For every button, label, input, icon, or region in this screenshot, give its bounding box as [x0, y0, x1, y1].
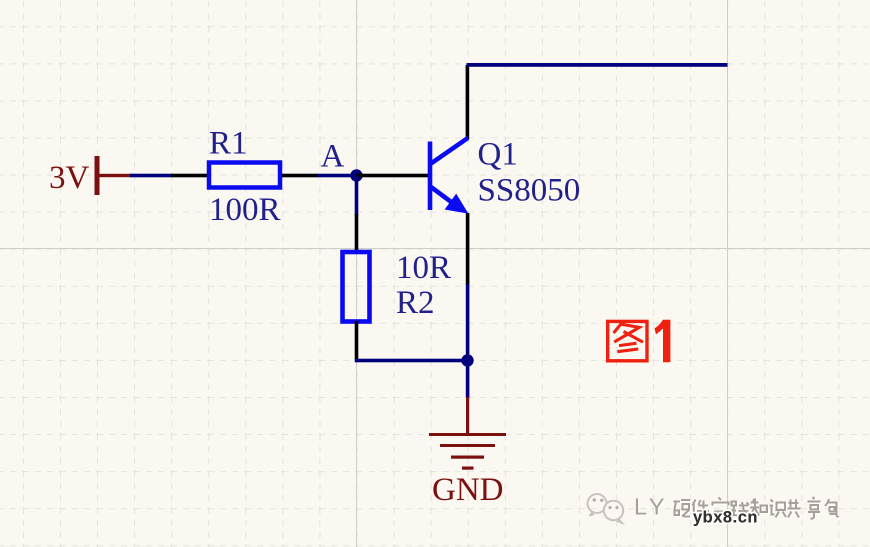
resistor R2: [343, 252, 370, 322]
wire navy bottom horizontal: [355, 359, 468, 363]
svg-text:A: A: [321, 139, 345, 175]
svg-text:R1: R1: [209, 126, 248, 162]
svg-text:LY: LY: [634, 494, 668, 520]
node emitter-ground junction: [461, 354, 473, 366]
power port 3V bar: [95, 156, 100, 195]
wire navy top rail: [467, 63, 728, 67]
transistor Q1 emitter arrow: [445, 194, 469, 214]
caption figure-1 digit: [655, 320, 671, 363]
wire navy junction to ground: [466, 360, 470, 398]
svg-text:R2: R2: [396, 285, 435, 321]
svg-text:ybx8.cn: ybx8.cn: [693, 509, 758, 527]
wire navy to junction: [466, 284, 470, 360]
watermark wechat icon: [588, 494, 624, 523]
resistor R1: [209, 163, 280, 188]
svg-text:Q1: Q1: [478, 137, 518, 173]
wire navy into node A: [317, 174, 357, 178]
wire red ground stub: [466, 397, 469, 434]
wire 3V red stub: [97, 174, 132, 177]
transistor Q1: [430, 138, 468, 210]
caption figure-1 box glyph: [608, 321, 647, 360]
wire black collector up: [466, 65, 470, 139]
svg-text:3V: 3V: [49, 160, 90, 196]
wire black right of R1: [282, 174, 318, 178]
wire black below R2: [355, 321, 359, 359]
ground GND symbol: [429, 433, 506, 470]
svg-text:GND: GND: [432, 472, 504, 508]
svg-text:SS8050: SS8050: [478, 173, 581, 209]
wire navy node A down: [355, 176, 359, 216]
wire black down to R2: [355, 214, 359, 252]
wire black to R1: [171, 174, 209, 178]
wire navy left of R1: [130, 174, 173, 178]
node A junction: [350, 169, 362, 181]
wire black emitter down: [466, 213, 470, 285]
svg-text:100R: 100R: [209, 192, 281, 228]
svg-text:10R: 10R: [396, 250, 451, 286]
watermark text LY + hanzi strokes: [634, 494, 840, 521]
wire black node A to base: [356, 174, 428, 178]
